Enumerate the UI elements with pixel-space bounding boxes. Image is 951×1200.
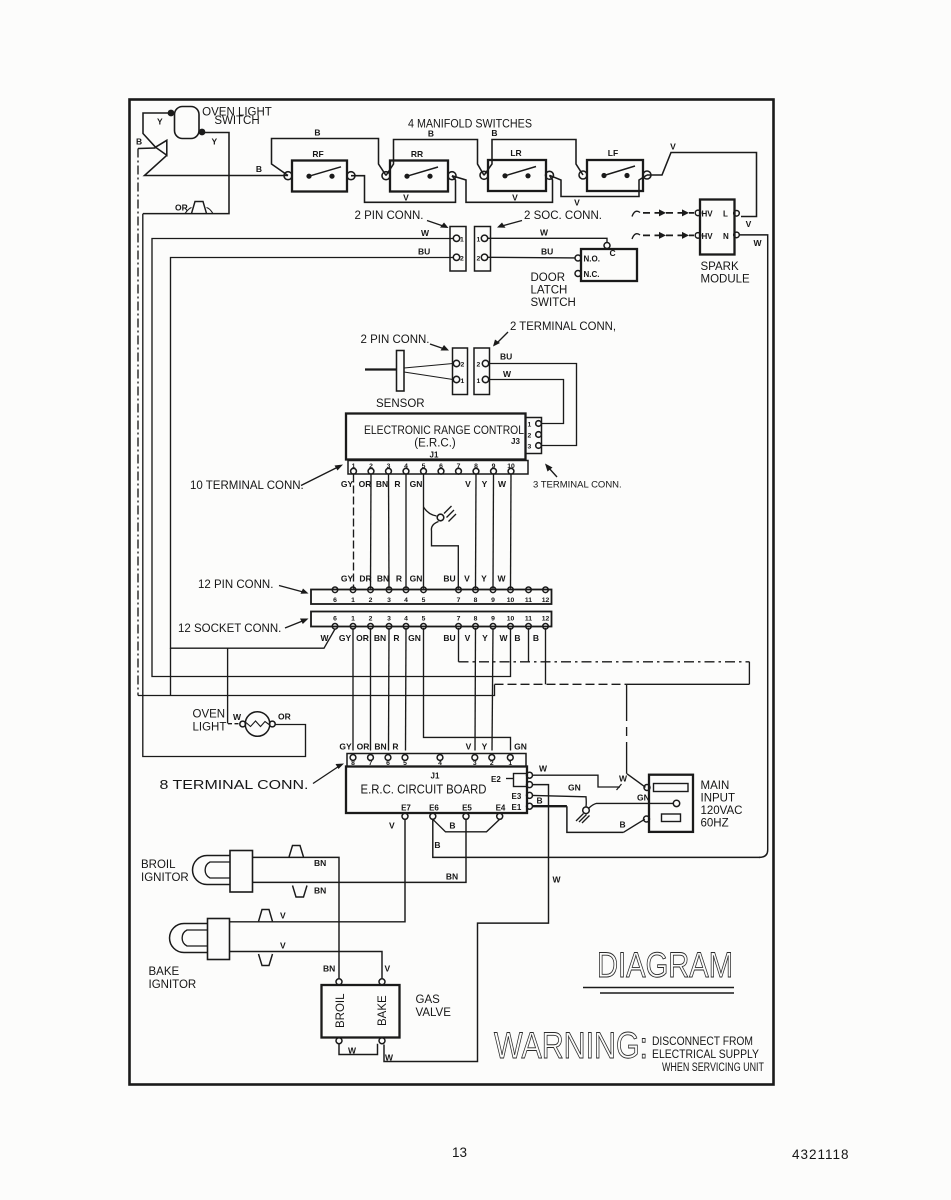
- svg-text:8: 8: [474, 597, 478, 604]
- svg-text:B: B: [491, 128, 497, 138]
- arrow to 10 terminal conn: [301, 467, 339, 486]
- svg-text:GY: GY: [341, 479, 354, 489]
- svg-text:WARNING:: WARNING:: [494, 1025, 648, 1066]
- E.R.C. circuit board box: [346, 767, 527, 814]
- svg-text:R: R: [394, 479, 400, 489]
- svg-text:GY: GY: [341, 574, 354, 584]
- sensor probe: [365, 368, 397, 370]
- svg-text:7: 7: [457, 463, 461, 470]
- lamp lead left (dashed): [228, 723, 240, 725]
- svg-text:W: W: [540, 228, 549, 238]
- svg-text:V: V: [512, 193, 518, 203]
- svg-text:GN: GN: [410, 574, 423, 584]
- broil top wire to gas valve: [253, 857, 340, 978]
- switch RF contacts and blade: [306, 167, 341, 179]
- svg-text:V: V: [280, 941, 286, 951]
- wire BN from E5 to broil ignitor: [253, 819, 467, 882]
- wire Y socket down: [492, 628, 493, 751]
- svg-text:RR: RR: [411, 149, 423, 159]
- wire W to door latch C: [488, 238, 607, 242]
- switch RR box: [390, 161, 448, 192]
- wire W J1-10 down: [510, 475, 513, 589]
- svg-text:BN: BN: [446, 872, 458, 882]
- svg-text:W: W: [498, 479, 507, 489]
- spark module box: [700, 200, 735, 255]
- oven light switch S1 body: [175, 107, 200, 139]
- svg-text:3: 3: [528, 444, 532, 451]
- wire GN J1-5 down: [423, 475, 425, 589]
- svg-text:BN: BN: [314, 858, 326, 868]
- connector J3: [526, 418, 542, 454]
- svg-text:DOOR: DOOR: [531, 272, 566, 284]
- wire BU socket-7 down to dash line: [458, 628, 460, 662]
- svg-text:N.C.: N.C.: [584, 270, 600, 279]
- wire B socket-12 down: [545, 628, 547, 684]
- lamp filament: [246, 721, 269, 727]
- svg-text:W: W: [348, 1046, 357, 1056]
- main input bottom terminal: [644, 816, 650, 822]
- wire BU loop (left side to 12 socket BU): [171, 258, 454, 649]
- svg-text:GN: GN: [514, 742, 527, 752]
- svg-text:10: 10: [507, 597, 515, 604]
- chassis ground symbol: [583, 807, 590, 814]
- 2 pin connector strip (sensor): [453, 348, 468, 395]
- svg-text:INPUT: INPUT: [701, 793, 736, 805]
- svg-text:SENSOR: SENSOR: [376, 398, 425, 410]
- wire B loop RF-RR: [272, 139, 387, 176]
- svg-text:8: 8: [351, 760, 355, 767]
- door latch terminal C: [604, 243, 610, 249]
- switch LR contacts and blade: [502, 167, 536, 179]
- wire OR socket down: [370, 628, 372, 751]
- svg-text:2: 2: [369, 597, 373, 604]
- wire W loop (left side to 12 socket W): [152, 239, 511, 677]
- svg-text:DISCONNECT FROM: DISCONNECT FROM: [652, 1036, 753, 1048]
- switch LR box: [488, 160, 546, 191]
- svg-text:IGNITOR: IGNITOR: [141, 872, 189, 884]
- svg-text:9: 9: [491, 615, 495, 622]
- svg-text:W: W: [503, 369, 512, 379]
- svg-text:2: 2: [369, 463, 373, 470]
- svg-text:LATCH: LATCH: [531, 285, 568, 297]
- door latch switch box: [581, 249, 637, 281]
- svg-text:OR: OR: [357, 742, 370, 752]
- svg-text:E5: E5: [462, 804, 472, 813]
- svg-text:SWITCH: SWITCH: [214, 115, 259, 127]
- wire R J1-4 down: [405, 475, 407, 589]
- 12 pin connector strip: [311, 590, 552, 605]
- svg-text:OR: OR: [359, 479, 372, 489]
- svg-text:8: 8: [474, 615, 478, 622]
- svg-text:ELECTRICAL SUPPLY: ELECTRICAL SUPPLY: [652, 1049, 759, 1061]
- svg-text:BU: BU: [443, 574, 455, 584]
- svg-text:V: V: [385, 964, 391, 974]
- svg-text:E4: E4: [496, 804, 506, 813]
- svg-text:4 MANIFOLD SWITCHES: 4 MANIFOLD SWITCHES: [408, 119, 532, 131]
- switch RR terminals: [382, 172, 390, 180]
- svg-text:HV: HV: [702, 232, 714, 241]
- svg-text:BU: BU: [443, 633, 455, 643]
- bake ignitor element: [170, 924, 208, 953]
- svg-text:12: 12: [542, 597, 550, 604]
- arrow to 12 socket conn: [285, 620, 305, 628]
- svg-text:B: B: [514, 633, 520, 643]
- svg-text:N: N: [723, 232, 729, 241]
- svg-text:2: 2: [528, 433, 532, 440]
- wire V to spark module: [647, 153, 757, 217]
- svg-text:W: W: [497, 574, 506, 584]
- svg-text:1: 1: [477, 378, 481, 385]
- svg-text:MODULE: MODULE: [701, 274, 751, 286]
- sensor body bar: [397, 351, 405, 392]
- svg-text:3: 3: [387, 463, 391, 470]
- svg-text:V: V: [574, 198, 580, 208]
- svg-text:W: W: [553, 875, 562, 885]
- svg-text:W: W: [385, 1053, 394, 1063]
- arrow to 12 pin conn: [279, 586, 305, 593]
- svg-text:10: 10: [507, 615, 515, 622]
- svg-text:W: W: [233, 712, 242, 722]
- svg-text:GN: GN: [410, 479, 423, 489]
- svg-text:2: 2: [461, 362, 465, 369]
- wire V J1-8 down: [475, 475, 478, 589]
- svg-text:1: 1: [351, 615, 355, 622]
- svg-text:Y: Y: [482, 633, 488, 643]
- svg-text:8 TERMINAL CONN.: 8 TERMINAL CONN.: [160, 777, 309, 792]
- svg-text:12: 12: [542, 615, 550, 622]
- svg-text:OR: OR: [278, 712, 291, 722]
- wire B feed into triangle: [138, 147, 156, 150]
- svg-text:1: 1: [508, 760, 512, 767]
- arrow to 2 soc conn: [500, 221, 522, 227]
- svg-text:1: 1: [461, 378, 465, 385]
- svg-text:120VAC: 120VAC: [701, 805, 743, 817]
- svg-text:BAKE: BAKE: [377, 995, 389, 1026]
- svg-text:W: W: [320, 633, 329, 643]
- oven light switch terminal dot (top Y): [168, 110, 175, 117]
- chassis ground branch from GN: [424, 507, 437, 516]
- svg-text:BU: BU: [541, 247, 553, 257]
- svg-text:SWITCH: SWITCH: [531, 297, 576, 309]
- svg-text:5: 5: [422, 463, 426, 470]
- svg-text:Y: Y: [157, 117, 163, 127]
- svg-text:9: 9: [491, 597, 495, 604]
- wire W from board to gas valve: [384, 785, 549, 1062]
- wire W from spark N down right side: [740, 235, 768, 858]
- svg-text:J3: J3: [511, 437, 520, 446]
- svg-text:Y: Y: [482, 479, 488, 489]
- svg-text:RF: RF: [312, 149, 323, 159]
- svg-text:4: 4: [404, 597, 408, 604]
- main input L prong: [654, 784, 689, 792]
- wire BU to door latch NO: [488, 256, 576, 259]
- svg-text:E3: E3: [512, 792, 522, 801]
- tick on W wire: [617, 784, 622, 790]
- svg-text:V: V: [466, 742, 472, 752]
- svg-text:GAS: GAS: [416, 994, 441, 1006]
- svg-text:BN: BN: [374, 633, 386, 643]
- svg-text:VALVE: VALVE: [416, 1007, 452, 1019]
- svg-text:11: 11: [525, 597, 532, 604]
- arrow to 8 terminal conn: [313, 766, 340, 784]
- svg-text:HV: HV: [702, 210, 714, 219]
- svg-text:B: B: [620, 820, 626, 830]
- clip on bake bottom wire: [259, 954, 273, 966]
- svg-text:ELECTRONIC RANGE CONTROL: ELECTRONIC RANGE CONTROL: [364, 425, 525, 437]
- switch RF box: [292, 161, 347, 192]
- svg-text:GY: GY: [339, 742, 352, 752]
- svg-text:GN: GN: [637, 793, 650, 803]
- wire GN socket down with jog to pin1: [424, 628, 511, 751]
- disconnect blade at main input bottom: [623, 819, 645, 832]
- svg-text:Y: Y: [481, 574, 487, 584]
- wire V socket down: [474, 628, 477, 751]
- 12 pin conn terminals: [332, 587, 338, 593]
- arrow to 2 pin conn: [427, 221, 446, 228]
- svg-text:1: 1: [528, 422, 532, 429]
- switch RF terminals: [284, 172, 292, 180]
- svg-text:BN: BN: [323, 964, 335, 974]
- switch RR contacts and blade: [404, 167, 438, 179]
- svg-text:B: B: [314, 128, 320, 138]
- wire from triangle to RF switch: [145, 155, 289, 175]
- svg-text:W: W: [619, 774, 628, 784]
- wire B bottom bus to right: [138, 685, 495, 696]
- 2 socket connector strip (top): [475, 227, 491, 272]
- quick-connect clip on bake top wire: [259, 910, 273, 922]
- wire R socket down: [405, 628, 408, 751]
- svg-text:10: 10: [507, 463, 515, 470]
- svg-text:WHEN SERVICING UNIT: WHEN SERVICING UNIT: [662, 1062, 764, 1074]
- svg-text:B: B: [533, 633, 539, 643]
- svg-text:V: V: [280, 911, 286, 921]
- gas valve box: [322, 985, 400, 1038]
- svg-text:BAKE: BAKE: [149, 966, 180, 978]
- svg-text:E1: E1: [512, 803, 522, 812]
- svg-text:60HZ: 60HZ: [701, 818, 729, 830]
- svg-text:W: W: [499, 633, 508, 643]
- svg-text:12 SOCKET CONN.: 12 SOCKET CONN.: [178, 623, 281, 635]
- lamp/buzzer triangle symbol: [156, 140, 167, 155]
- wire V link RR-LR: [452, 175, 553, 202]
- svg-text:R: R: [396, 574, 402, 584]
- svg-text:2 PIN CONN.: 2 PIN CONN.: [354, 210, 423, 222]
- wire BN J1-3 down: [388, 475, 391, 589]
- svg-text:3: 3: [473, 760, 477, 767]
- svg-text:E6: E6: [429, 804, 439, 813]
- svg-text:BU: BU: [418, 247, 430, 257]
- svg-text:13: 13: [452, 1145, 467, 1160]
- svg-text:3 TERMINAL CONN.: 3 TERMINAL CONN.: [533, 480, 622, 491]
- svg-text:6: 6: [386, 760, 390, 767]
- main input neutral round prong: [673, 800, 679, 806]
- svg-text:10 TERMINAL CONN.: 10 TERMINAL CONN.: [190, 480, 304, 492]
- svg-text:2: 2: [369, 615, 373, 622]
- svg-text:12 PIN CONN.: 12 PIN CONN.: [198, 579, 273, 591]
- svg-text:3: 3: [387, 615, 391, 622]
- svg-text:1: 1: [460, 236, 464, 243]
- svg-text:4: 4: [404, 463, 408, 470]
- svg-text:2 PIN CONN.: 2 PIN CONN.: [360, 334, 429, 346]
- 12 socket connector strip: [311, 612, 552, 627]
- main input box: [649, 775, 693, 832]
- clip on broil top wire: [289, 846, 304, 858]
- svg-text:6: 6: [333, 615, 337, 622]
- svg-text:DR: DR: [359, 574, 371, 584]
- wire W valve bottom link: [339, 1044, 378, 1055]
- svg-text:E7: E7: [401, 804, 411, 813]
- svg-text:1: 1: [477, 236, 481, 243]
- svg-text:R: R: [393, 633, 399, 643]
- 8 terminal connector strip: [347, 754, 526, 767]
- wire B socket-11 down and dash-dot right: [528, 628, 530, 662]
- svg-text:7: 7: [457, 597, 461, 604]
- svg-text:E2: E2: [491, 775, 501, 784]
- svg-text:B: B: [434, 840, 440, 850]
- wire Y J1-9 down: [492, 475, 495, 589]
- wire BU from ground to 12pin-7: [431, 522, 458, 589]
- board bottom terminals E7 E6 E5 E4: [402, 813, 408, 819]
- wire B from E6 down and right: [433, 819, 760, 857]
- wire W sensor to J3-1: [489, 380, 564, 424]
- svg-text:OR: OR: [356, 633, 369, 643]
- svg-text:J1: J1: [430, 451, 439, 460]
- svg-text:3: 3: [387, 597, 391, 604]
- svg-text:V: V: [465, 479, 471, 489]
- oven light switch terminal dot (bottom Y): [199, 129, 206, 136]
- HV lead lower (dashed with arrows): [632, 234, 640, 239]
- svg-text:5: 5: [422, 597, 426, 604]
- HV lead upper (dashed with arrows): [632, 211, 640, 216]
- main input bottom prong: [662, 814, 681, 822]
- svg-text:(E.R.C.): (E.R.C.): [414, 438, 456, 450]
- svg-text:GY: GY: [339, 633, 352, 643]
- svg-text:B: B: [136, 137, 142, 147]
- svg-text:SPARK: SPARK: [701, 261, 739, 273]
- svg-text:V: V: [746, 219, 752, 229]
- door latch terminal N.O.: [575, 255, 581, 261]
- svg-text:BROIL: BROIL: [141, 859, 176, 871]
- svg-text:1: 1: [351, 597, 355, 604]
- bake ignitor block: [208, 919, 230, 960]
- svg-text:Y: Y: [482, 742, 488, 752]
- svg-text:5: 5: [403, 760, 407, 767]
- svg-text:6: 6: [439, 463, 443, 470]
- svg-text:8: 8: [474, 463, 478, 470]
- gas valve terminals: [336, 979, 342, 985]
- svg-text:5: 5: [422, 615, 426, 622]
- wire Y from switch to lamp symbol: [143, 113, 171, 147]
- wire GN from E3 to ground and main input: [533, 795, 587, 806]
- connector E2 tab: [514, 774, 528, 787]
- wire B long vertical (left side, dash-dot): [137, 149, 139, 696]
- svg-text:B: B: [256, 164, 262, 174]
- svg-text:2 TERMINAL CONN,: 2 TERMINAL CONN,: [510, 321, 616, 333]
- svg-text:V: V: [670, 142, 676, 152]
- svg-text:2: 2: [477, 255, 481, 262]
- wire B dashed run to main input drop: [495, 683, 627, 685]
- svg-text:BROIL: BROIL: [335, 993, 347, 1028]
- arrow to 2 terminal conn (sensor): [496, 332, 508, 344]
- svg-text:W: W: [421, 228, 430, 238]
- wire Y2 from switch down: [143, 133, 229, 214]
- svg-text:C: C: [610, 248, 616, 258]
- svg-text:BN: BN: [376, 479, 388, 489]
- svg-text:2: 2: [490, 760, 494, 767]
- arrow to 3 terminal conn: [548, 467, 557, 477]
- wire B link E6-E4: [433, 819, 500, 832]
- svg-text:LIGHT: LIGHT: [193, 722, 227, 734]
- wire BN socket down: [388, 628, 391, 751]
- svg-text:BN: BN: [374, 742, 386, 752]
- svg-text:E.R.C. CIRCUIT BOARD: E.R.C. CIRCUIT BOARD: [361, 783, 487, 797]
- svg-text:BN: BN: [377, 574, 389, 584]
- svg-text:OR: OR: [175, 203, 188, 213]
- svg-text:MAIN: MAIN: [701, 780, 730, 792]
- wire GY J1-1 down: [353, 475, 355, 589]
- 12 socket conn terminals: [332, 624, 338, 630]
- svg-text:7: 7: [369, 760, 373, 767]
- main input terminal L: [644, 785, 650, 791]
- svg-text:DIAGRAM: DIAGRAM: [597, 946, 733, 985]
- svg-text:V: V: [464, 574, 470, 584]
- 2 pin connector strip (top): [450, 227, 466, 272]
- svg-text:V: V: [389, 821, 395, 831]
- svg-text:V: V: [465, 633, 471, 643]
- arrow to 2 pin conn (sensor): [430, 344, 446, 350]
- svg-text:1: 1: [352, 463, 356, 470]
- svg-text:GN: GN: [408, 633, 421, 643]
- svg-text:J1: J1: [431, 772, 440, 781]
- svg-text:R: R: [392, 742, 398, 752]
- svg-text:6: 6: [333, 597, 337, 604]
- ERC box: [346, 414, 526, 460]
- oven light lamp: [245, 712, 270, 737]
- svg-text:B: B: [428, 129, 434, 139]
- svg-text:B: B: [537, 796, 543, 806]
- wire OR long vertical (left side): [143, 214, 306, 757]
- wire B loop RR-LR: [386, 140, 484, 176]
- wire B loop LR-LF: [484, 140, 583, 176]
- wire OR J1-2 down: [370, 475, 373, 589]
- clip on broil bottom wire: [293, 886, 308, 898]
- broil ignitor element: [193, 856, 231, 885]
- svg-text:7: 7: [457, 615, 461, 622]
- disconnect blade at main input L: [627, 774, 646, 788]
- svg-text:V: V: [403, 193, 409, 203]
- svg-text:2 SOC. CONN.: 2 SOC. CONN.: [524, 210, 602, 222]
- wire V from E7 to bake ignitor: [230, 819, 406, 922]
- svg-text:9: 9: [492, 463, 496, 470]
- svg-text:BN: BN: [314, 886, 326, 896]
- svg-text:LF: LF: [608, 148, 618, 158]
- svg-text:11: 11: [525, 615, 532, 622]
- 10 terminal connector strip: [348, 461, 528, 475]
- svg-text:N.O.: N.O.: [584, 255, 600, 264]
- lamp terminals: [240, 721, 246, 727]
- svg-text:OVEN: OVEN: [193, 709, 226, 721]
- door latch terminal N.C.: [575, 271, 581, 277]
- svg-text:4: 4: [438, 760, 442, 767]
- svg-text:IGNITOR: IGNITOR: [149, 979, 197, 991]
- sensor leads: [404, 364, 453, 369]
- wire stub below BU corner: [170, 648, 172, 695]
- svg-text:GN: GN: [568, 783, 581, 793]
- svg-text:W: W: [754, 238, 763, 248]
- title underlines: [583, 987, 734, 989]
- svg-text:2: 2: [477, 362, 481, 369]
- svg-text:L: L: [723, 210, 728, 219]
